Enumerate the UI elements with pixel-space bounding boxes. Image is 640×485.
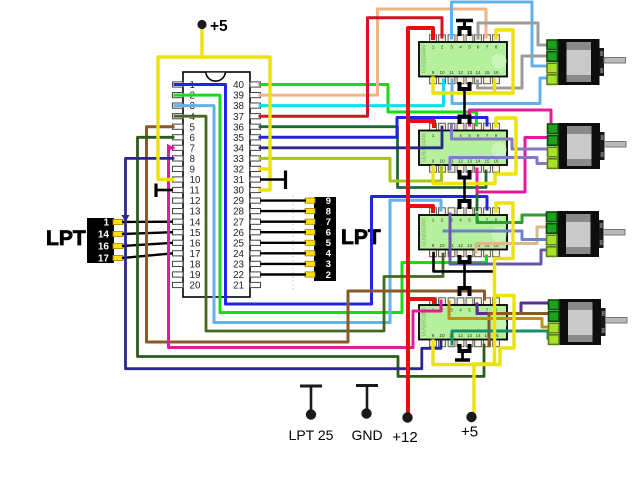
svg-text:1: 1 bbox=[432, 133, 435, 138]
wire U4 to M3 block3 (cornflower) bbox=[444, 231, 548, 240]
wire U1 pin8 to U5 bottom (navy) bbox=[126, 158, 442, 368]
jumper staple U3 bottom to U4 top (black) bbox=[460, 170, 470, 209]
connector J2 LPT (right, pins 9-2) bbox=[305, 196, 336, 281]
svg-text:34: 34 bbox=[233, 143, 244, 154]
svg-text:7: 7 bbox=[486, 45, 489, 50]
wire U1 pin6 to U5 bottom (dark green) bbox=[138, 137, 485, 376]
svg-text:12: 12 bbox=[458, 70, 464, 75]
faded dotted guide line bbox=[292, 196, 294, 291]
svg-text:33: 33 bbox=[233, 154, 244, 165]
wire U3 pin5 to M2 block1 (magenta) bbox=[470, 110, 552, 125]
ground symbol above U2 bbox=[456, 21, 473, 29]
svg-text:2: 2 bbox=[441, 218, 444, 223]
svg-text:ULN2003AN: ULN2003AN bbox=[422, 218, 428, 246]
wire U1 pin1 to U3 top (blue) bbox=[175, 85, 487, 305]
svg-text:3: 3 bbox=[450, 308, 453, 313]
transistor M3 (stepper motor 3) bbox=[547, 211, 626, 257]
svg-text:10: 10 bbox=[190, 175, 201, 186]
wire U1 pin40 to U3 top (green) bbox=[260, 85, 477, 126]
U1 left pin boxes 1-20 bbox=[173, 82, 184, 288]
svg-text:40: 40 bbox=[233, 80, 244, 91]
svg-text:+5: +5 bbox=[210, 18, 228, 35]
svg-text:GND: GND bbox=[351, 427, 382, 443]
svg-text:9: 9 bbox=[326, 196, 331, 207]
svg-text:1: 1 bbox=[432, 45, 435, 50]
svg-text:7: 7 bbox=[486, 133, 489, 138]
svg-text:11: 11 bbox=[190, 186, 200, 197]
wire U1 pin4 to U4 bottom (olive green) bbox=[175, 116, 443, 331]
wire U1 pin39 to U2 top (peach) bbox=[260, 9, 486, 95]
arrowhead navy at J1 pin1 bbox=[122, 215, 130, 222]
svg-text:27: 27 bbox=[233, 217, 244, 228]
svg-text:15: 15 bbox=[484, 159, 490, 164]
svg-text:31: 31 bbox=[233, 175, 244, 186]
wire +5 loop U2 (yellow) bbox=[433, 30, 513, 93]
transistor M1 (stepper motor 1) bbox=[547, 39, 626, 85]
wire +5 loop U3 (yellow) bbox=[433, 118, 516, 184]
wire U5 bottom pin7 to M4 block2 (brown) bbox=[489, 314, 551, 346]
wire +5 loop U4 + rail (yellow) bbox=[474, 203, 513, 413]
svg-text:8: 8 bbox=[190, 154, 196, 165]
svg-text:11: 11 bbox=[449, 70, 454, 75]
svg-text:26: 26 bbox=[233, 228, 244, 239]
wire U3 bottom pin3 to M2 block4 (slate violet) bbox=[450, 158, 550, 170]
wire U2 pin3 to M1 block3 (sky blue) bbox=[452, 2, 549, 66]
wire U1 pin36 to U3/U4 (forest green) bbox=[260, 127, 486, 188]
wire U1 pin26 to J2 pin6 bbox=[260, 231, 306, 233]
svg-text:16: 16 bbox=[98, 242, 110, 253]
wire U1 pin5 to U5 top (brown) bbox=[147, 127, 485, 342]
svg-text:6: 6 bbox=[326, 228, 331, 239]
svg-text:5: 5 bbox=[326, 238, 332, 249]
svg-text:14: 14 bbox=[190, 217, 201, 228]
svg-text:5: 5 bbox=[468, 45, 471, 50]
svg-text:LPT: LPT bbox=[46, 227, 86, 250]
wire U1 pin27 to J2 pin7 bbox=[260, 220, 306, 222]
wire J1 pin1 to U1 pin14 bbox=[122, 220, 173, 223]
wire U4 bottom pin1 stub (black) bbox=[434, 253, 495, 271]
jumper staple U5 bottom with ground (black) bbox=[455, 344, 470, 360]
wire U5 pin6 to M4 block1 (purple) bbox=[477, 303, 551, 314]
wire U1 pin24 to J2 pin4 bbox=[260, 252, 306, 254]
svg-text:36: 36 bbox=[233, 122, 244, 133]
terminal +12 bbox=[402, 412, 412, 422]
svg-text:+12: +12 bbox=[392, 429, 417, 446]
svg-text:32: 32 bbox=[233, 165, 244, 176]
wire U1 pin35 to U3 top (royal blue) bbox=[260, 118, 487, 138]
wire U1 pin23 to J2 pin3 bbox=[260, 263, 306, 265]
wire U1 pin28 to J2 pin8 bbox=[260, 210, 306, 212]
svg-text:7: 7 bbox=[326, 217, 331, 228]
svg-text:14: 14 bbox=[98, 230, 110, 241]
svg-text:12: 12 bbox=[190, 196, 201, 207]
svg-text:9: 9 bbox=[190, 165, 195, 176]
svg-text:2: 2 bbox=[326, 270, 331, 281]
svg-text:14: 14 bbox=[475, 70, 481, 75]
svg-text:9: 9 bbox=[432, 159, 435, 164]
svg-text:16: 16 bbox=[493, 159, 499, 164]
svg-text:39: 39 bbox=[233, 91, 244, 102]
U1 right pin boxes 40-21 bbox=[250, 82, 261, 288]
svg-text:24: 24 bbox=[233, 249, 244, 260]
svg-text:4: 4 bbox=[459, 133, 462, 138]
svg-text:14: 14 bbox=[475, 159, 481, 164]
terminal GND bbox=[356, 386, 378, 410]
svg-text:16: 16 bbox=[493, 70, 499, 75]
svg-text:5: 5 bbox=[468, 218, 471, 223]
svg-text:37: 37 bbox=[233, 112, 244, 123]
svg-text:4: 4 bbox=[326, 249, 332, 260]
svg-text:25: 25 bbox=[233, 238, 244, 249]
svg-text:21: 21 bbox=[233, 281, 244, 292]
svg-text:18: 18 bbox=[190, 260, 201, 271]
svg-text:19: 19 bbox=[190, 270, 201, 281]
svg-text:8: 8 bbox=[495, 45, 498, 50]
wire U1 pin22 to J2 pin2 bbox=[260, 273, 306, 275]
op-amp U3 (ULN2003 driver IC 2) bbox=[419, 123, 507, 172]
jumper staple U2 top pins 4-5 bbox=[460, 28, 470, 36]
wire U3 pin3 to M2 block3 (slate violet) bbox=[452, 125, 551, 149]
wire U1 pin33 to U3 bottom (yellow green) bbox=[260, 158, 442, 181]
svg-text:9: 9 bbox=[432, 333, 435, 338]
svg-text:13: 13 bbox=[467, 70, 473, 75]
wire U1 pin2 to U4 bottom (green) bbox=[175, 95, 487, 312]
jumper staple U4 bottom to U5 top (black) bbox=[460, 255, 470, 296]
svg-text:3: 3 bbox=[326, 259, 331, 270]
svg-text:30: 30 bbox=[233, 186, 244, 197]
wire U2 bottom pin3 to M1 block4 (sky blue) bbox=[452, 78, 548, 104]
wire U5 bottom pin3 to M4 block4 (teal) bbox=[452, 331, 551, 344]
svg-text:13: 13 bbox=[467, 159, 473, 164]
svg-text:15: 15 bbox=[484, 70, 490, 75]
wire U3 bottom pin6 to M2 block2 (magenta) bbox=[477, 138, 550, 193]
op-amp U4 (ULN2003 driver IC 3) bbox=[419, 208, 507, 257]
wire U1 pin29 to J2 pin9 bbox=[260, 199, 306, 201]
svg-text:1: 1 bbox=[432, 218, 435, 223]
op-amp U1 (DIP-40 microcontroller body) bbox=[183, 72, 250, 297]
svg-text:LPT 25: LPT 25 bbox=[289, 427, 334, 443]
wire +5 top feed (yellow) bbox=[200, 28, 203, 57]
terminal LPT 25 (ground pin) bbox=[300, 386, 322, 410]
wire U5 pin3 to M4 block3 (dark goldenrod) bbox=[449, 302, 551, 327]
svg-text:5: 5 bbox=[468, 308, 471, 313]
svg-text:4: 4 bbox=[459, 308, 462, 313]
svg-text:5: 5 bbox=[190, 122, 196, 133]
connector J1 LPT (left, pins 1/14/16/17) bbox=[87, 218, 123, 265]
wire +12 rail to U2 pin1 (red) bbox=[408, 28, 433, 412]
wire +5 stub to U1 pin32 (yellow) bbox=[260, 167, 270, 170]
wire +12 branch to U3 pin1 (red) bbox=[408, 121, 434, 126]
svg-text:3: 3 bbox=[450, 45, 453, 50]
svg-text:29: 29 bbox=[233, 196, 244, 207]
ground at U1 pin31 (right) bbox=[260, 171, 286, 190]
wire U2 bottom pin6 to M1 block2 (gray) bbox=[478, 56, 549, 88]
wire J1 pin14 to U1 pin15 bbox=[122, 232, 173, 234]
wire J1 pin17 to U1 pin17 bbox=[122, 253, 173, 258]
svg-text:23: 23 bbox=[233, 260, 244, 271]
transistor M2 (stepper motor 2) bbox=[548, 123, 627, 169]
svg-text:10: 10 bbox=[439, 243, 445, 248]
svg-text:7: 7 bbox=[190, 143, 195, 154]
svg-text:4: 4 bbox=[459, 45, 462, 50]
svg-text:10: 10 bbox=[439, 159, 445, 164]
wire +5 to U5 bottom pin1 (yellow) bbox=[433, 341, 497, 365]
wire +12 branch to U4 pin1 (red) bbox=[408, 206, 433, 211]
svg-text:38: 38 bbox=[233, 101, 244, 112]
svg-text:13: 13 bbox=[467, 243, 473, 248]
arrowhead magenta at U1 pin7 bbox=[167, 144, 174, 152]
svg-text:22: 22 bbox=[233, 270, 244, 281]
ground at U1 pin11 (left) bbox=[156, 184, 173, 198]
svg-text:7: 7 bbox=[486, 308, 489, 313]
wire U1 pin3 to U4 top (sky blue) bbox=[175, 106, 441, 323]
svg-text:12: 12 bbox=[458, 159, 464, 164]
svg-text:14: 14 bbox=[475, 333, 481, 338]
wire U1 pin38 to U2 bottom (cyan) bbox=[260, 80, 444, 106]
U1 pin number labels bbox=[190, 80, 245, 292]
svg-text:10: 10 bbox=[439, 70, 445, 75]
wire U1 pin25 to J2 pin5 bbox=[260, 242, 306, 244]
svg-text:6: 6 bbox=[477, 45, 480, 50]
wire J1 pin16 to U1 pin16 bbox=[122, 243, 173, 246]
wire U4 pin3 to M3 block4 (violet) bbox=[450, 214, 548, 264]
transistor M4 (stepper motor 4) bbox=[549, 299, 628, 345]
wire U4 bottom pin6 to M3 block2 (tan) bbox=[476, 227, 548, 252]
svg-text:4: 4 bbox=[459, 218, 462, 223]
svg-text:10: 10 bbox=[439, 333, 445, 338]
svg-text:20: 20 bbox=[190, 281, 201, 292]
svg-text:35: 35 bbox=[233, 133, 244, 144]
op-amp U5 (ULN2003 driver IC 4) bbox=[419, 298, 507, 347]
svg-text:9: 9 bbox=[432, 243, 435, 248]
svg-text:8: 8 bbox=[495, 133, 498, 138]
svg-text:15: 15 bbox=[190, 228, 201, 239]
wire +5 loop U5 (yellow) bbox=[495, 296, 515, 365]
svg-text:16: 16 bbox=[190, 238, 201, 249]
svg-text:9: 9 bbox=[432, 70, 435, 75]
wire U2 pin7 to M1 block1 (gray) bbox=[478, 23, 548, 45]
svg-text:ULN2003AN: ULN2003AN bbox=[422, 45, 428, 73]
svg-text:LPT: LPT bbox=[341, 226, 381, 249]
svg-text:17: 17 bbox=[98, 254, 110, 265]
svg-text:6: 6 bbox=[477, 133, 480, 138]
wire U1 pin34 to U3 top (navy) bbox=[260, 127, 442, 148]
op-amp U2 (ULN2003 driver IC 1) bbox=[419, 35, 507, 84]
svg-text:28: 28 bbox=[233, 207, 244, 218]
wire junction U1 pin36 branch to U4 pin6 bbox=[476, 188, 479, 211]
svg-text:8: 8 bbox=[326, 206, 332, 217]
svg-text:+5: +5 bbox=[461, 424, 478, 441]
terminal +5 top bbox=[197, 20, 206, 29]
svg-text:13: 13 bbox=[467, 333, 473, 338]
terminal +5 bottom bbox=[466, 412, 476, 422]
wire U1 pin37 to U2 top (crimson red) bbox=[260, 18, 442, 116]
svg-text:5: 5 bbox=[468, 133, 471, 138]
wire +5 rail around U1 (yellow) bbox=[158, 57, 270, 190]
svg-text:13: 13 bbox=[190, 207, 201, 218]
svg-text:17: 17 bbox=[190, 249, 201, 260]
svg-text:12: 12 bbox=[458, 333, 464, 338]
wire +12 branch to U5 pin1 (red) bbox=[408, 299, 434, 302]
wire U4 pin6 to M3 block1 (green) bbox=[477, 214, 548, 223]
jumper staple U2 bottom to U3 top (black) bbox=[460, 82, 470, 124]
wire +5 stub U2 bottom pin8 (yellow) bbox=[493, 80, 496, 93]
svg-text:1: 1 bbox=[103, 218, 109, 229]
svg-text:6: 6 bbox=[190, 133, 196, 144]
wire U1 pin7 to U5 top (magenta) bbox=[169, 148, 442, 348]
svg-text:12: 12 bbox=[458, 243, 464, 248]
svg-text:2: 2 bbox=[441, 45, 444, 50]
